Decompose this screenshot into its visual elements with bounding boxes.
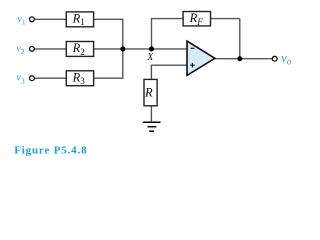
svg-text:R: R — [144, 86, 153, 100]
svg-text:Figure P5.4.8: Figure P5.4.8 — [14, 144, 87, 156]
svg-text:X: X — [146, 52, 154, 63]
